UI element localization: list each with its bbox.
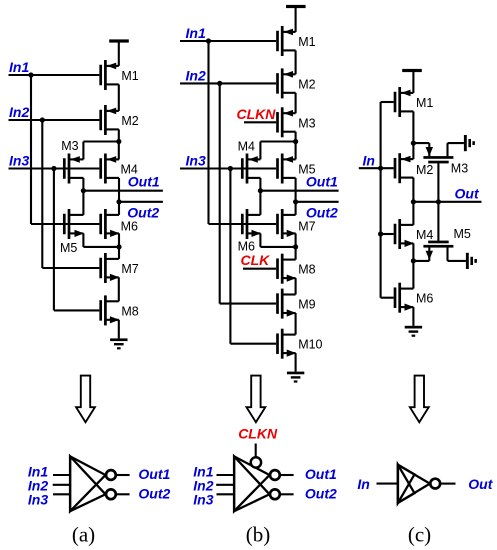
node Out junction circuit c bbox=[411, 199, 416, 204]
transistor M4 PMOS b bbox=[241, 154, 260, 184]
node In3 junction bbox=[51, 166, 56, 171]
svg-text:(c): (c) bbox=[408, 523, 431, 547]
wire M5 drain down to Out2 node circuit b bbox=[295, 178, 297, 202]
node M4 source / M5 / M6 drain bbox=[411, 258, 416, 263]
transistor M5 NMOS bbox=[63, 209, 84, 239]
node M3 M5 gate on Out line bbox=[436, 199, 441, 204]
clock bubble gate b bbox=[251, 457, 261, 467]
wire In3 rail to M10 gate bbox=[230, 343, 276, 345]
node In junction rail circuit c bbox=[378, 166, 383, 171]
wire M1 drain down to node circuit c bbox=[412, 111, 414, 143]
wire M2 drain to M3 source circuit b bbox=[295, 93, 297, 113]
gate symbol b triangle 2 bbox=[234, 456, 269, 511]
ground circuit b bbox=[287, 372, 304, 383]
svg-text:M1: M1 bbox=[416, 96, 433, 110]
svg-text:Out2: Out2 bbox=[305, 485, 337, 501]
supply symbol for M3 bbox=[464, 135, 475, 151]
svg-text:In1: In1 bbox=[186, 25, 206, 41]
transistor M6 NMOS b bbox=[241, 209, 261, 239]
svg-text:In: In bbox=[357, 476, 369, 492]
svg-text:M9: M9 bbox=[298, 298, 315, 312]
wire M4 source down to node circuit c bbox=[412, 243, 414, 261]
wire Out2 bbox=[119, 201, 163, 203]
wire M3 drain down to Out1 node bbox=[82, 178, 84, 191]
svg-text:M2: M2 bbox=[416, 163, 433, 177]
inversion bubble gate c bbox=[430, 479, 440, 489]
svg-text:In3: In3 bbox=[28, 492, 48, 508]
supply symbol for M5 bbox=[466, 253, 477, 269]
wire M3 source up to node bbox=[82, 142, 84, 160]
transistor M10 NMOS b bbox=[276, 329, 296, 359]
wire M1 drain to M2 source circuit b bbox=[295, 50, 297, 74]
svg-text:M8: M8 bbox=[121, 304, 138, 318]
pin In1 gate a bbox=[53, 474, 70, 476]
wire M10 source to ground circuit b bbox=[295, 353, 297, 372]
svg-text:M2: M2 bbox=[121, 114, 138, 128]
transistor M7 NMOS b bbox=[276, 209, 296, 239]
wire M6 source to common node circuit b bbox=[260, 246, 295, 248]
wire M6 drain up to Out1 circuit b bbox=[259, 191, 261, 215]
svg-text:M1: M1 bbox=[298, 35, 315, 49]
transistor M7 NMOS bbox=[99, 253, 119, 283]
wire In2 rail to M7 gate bbox=[42, 267, 99, 269]
pin Out2 gate b bbox=[280, 493, 294, 495]
svg-text:M10: M10 bbox=[298, 338, 322, 352]
wire M7 source to M8 drain bbox=[118, 277, 120, 301]
svg-text:CLK: CLK bbox=[241, 252, 271, 268]
transistor M2 PMOS c bbox=[394, 153, 414, 183]
node rail M4 gate junction bbox=[378, 231, 383, 236]
gate symbol a triangle 2 bbox=[70, 456, 105, 511]
wire node to M3 horizontal bbox=[413, 142, 429, 144]
wire In1 to M1 gate bbox=[9, 74, 100, 76]
pin Out2 gate a bbox=[116, 493, 130, 495]
transistor M8 NMOS bbox=[99, 295, 119, 325]
svg-text:Out1: Out1 bbox=[306, 174, 338, 190]
wire M2 drain down to internal node bbox=[118, 129, 120, 141]
wire M4 drain down to Out2 node bbox=[118, 178, 120, 202]
wire M4 source up to node bbox=[118, 142, 120, 160]
svg-text:In3: In3 bbox=[193, 492, 213, 508]
wire In1 to M1 gate circuit b bbox=[180, 40, 276, 42]
svg-text:Out2: Out2 bbox=[127, 204, 159, 220]
node M2 drain / M3 M4 sources bbox=[116, 139, 121, 144]
wire Out2 circuit b bbox=[296, 201, 339, 203]
wire common node down to M8 drain bbox=[295, 247, 297, 260]
gate symbol a triangle 1 bbox=[70, 456, 105, 511]
pin CLKN gate b bbox=[255, 444, 257, 458]
svg-text:In2: In2 bbox=[9, 104, 29, 120]
ground circuit c bbox=[405, 326, 422, 337]
wire M4 drain up to Out circuit c bbox=[412, 202, 414, 225]
wire internal node horizontal bbox=[83, 140, 118, 142]
wire M4 drain down to Out1 node circuit b bbox=[259, 178, 261, 191]
svg-text:M3: M3 bbox=[298, 116, 315, 130]
node Out1 junction bbox=[81, 188, 86, 193]
wire M6 drain up to Out2 node bbox=[118, 202, 120, 215]
pin In3 gate a bbox=[53, 493, 70, 495]
wire M2 source up to node circuit c bbox=[412, 143, 414, 159]
svg-text:In: In bbox=[363, 152, 375, 168]
power VDD symbol circuit b bbox=[286, 5, 306, 8]
svg-text:Out1: Out1 bbox=[128, 173, 160, 189]
gate symbol c inner triangle up bbox=[398, 465, 415, 503]
node Out2 junction bbox=[116, 199, 121, 204]
wire In2 to M2 gate circuit b bbox=[180, 82, 276, 84]
block arrow under circuit c bbox=[410, 376, 429, 423]
svg-text:M8: M8 bbox=[298, 263, 315, 277]
wire VDD stem to M1 source circuit c bbox=[412, 72, 414, 93]
transistor M5 PMOS b bbox=[276, 154, 295, 184]
pin Out gate c bbox=[441, 483, 456, 485]
node In1 junction bbox=[28, 72, 33, 77]
wire Out circuit c bbox=[413, 201, 481, 203]
gate symbol c outer triangle bbox=[398, 465, 430, 503]
node M3 drain / M4 M5 sources bbox=[293, 139, 298, 144]
wire In1 rail to M6 M7 gates circuit b bbox=[209, 223, 277, 225]
node M5 M6 sources / M7 drain bbox=[116, 244, 121, 249]
node In2 junction bbox=[40, 117, 45, 122]
transistor M3 PMOS bbox=[63, 154, 83, 184]
wire M7 source down to common node circuit b bbox=[295, 233, 297, 247]
wire VDD stem to M1 source bbox=[118, 42, 120, 66]
svg-text:Out: Out bbox=[468, 476, 493, 492]
svg-text:M5: M5 bbox=[60, 241, 77, 255]
gate symbol b triangle 1 bbox=[234, 456, 269, 511]
wire M6 source down circuit b bbox=[259, 233, 261, 247]
wire M5 source to common node bbox=[83, 246, 119, 248]
svg-text:M4: M4 bbox=[238, 140, 255, 154]
inversion bubble Out2 gate b bbox=[270, 489, 280, 499]
inversion bubble Out2 gate a bbox=[106, 489, 116, 499]
wire CLKN stub to M3 gate bbox=[244, 121, 276, 123]
pin In2 gate a bbox=[53, 484, 70, 486]
pin Out1 gate a bbox=[116, 474, 130, 476]
wire M8 source to ground bbox=[118, 320, 120, 339]
svg-text:M5: M5 bbox=[454, 227, 471, 241]
transistor M9 NMOS b bbox=[276, 289, 296, 319]
svg-text:M3: M3 bbox=[451, 161, 468, 175]
svg-text:In1: In1 bbox=[9, 59, 29, 75]
node In2 junction circuit b bbox=[217, 81, 222, 86]
wire CLK stub to M8 gate bbox=[243, 268, 276, 270]
node M1 drain / M2 source / M3 bbox=[411, 141, 416, 146]
svg-text:M3: M3 bbox=[61, 139, 78, 153]
wire M2 drain down to Out circuit c bbox=[412, 178, 414, 202]
wire In to M2 gate circuit c bbox=[359, 167, 394, 169]
pin In2 gate b bbox=[216, 484, 234, 486]
power VDD symbol circuit c bbox=[402, 69, 422, 72]
transistor M1 PMOS b bbox=[276, 26, 295, 56]
node Out2 junction circuit b bbox=[293, 199, 298, 204]
wire internal node horizontal circuit b bbox=[260, 140, 295, 142]
pin In gate c bbox=[377, 483, 398, 485]
wire rail to M4 gate circuit c bbox=[381, 233, 394, 235]
transistor M8 NMOS clocked bbox=[276, 254, 296, 284]
svg-text:Out: Out bbox=[455, 185, 480, 201]
svg-text:M1: M1 bbox=[121, 69, 138, 83]
power VDD symbol circuit a bbox=[109, 39, 129, 42]
pin Out1 gate b bbox=[280, 474, 294, 476]
svg-text:Out2: Out2 bbox=[138, 485, 170, 501]
wire rail to M6 gate circuit c bbox=[381, 297, 394, 299]
transistor M6 NMOS bbox=[99, 209, 119, 239]
wire In1 rail to M5 M6 gates bbox=[31, 223, 99, 225]
block arrow under circuit b bbox=[247, 376, 266, 423]
wire common node down to M7 drain bbox=[118, 247, 120, 259]
wire M5 source down bbox=[82, 233, 84, 247]
node In3 junction circuit b bbox=[228, 166, 233, 171]
transistor M1 PMOS bbox=[99, 60, 118, 90]
wire M5 drain up to Out1 node bbox=[82, 191, 84, 215]
wire M3 drain down to internal node circuit b bbox=[295, 132, 297, 142]
gate symbol c inner triangle down bbox=[398, 465, 415, 503]
pin In3 gate b bbox=[217, 493, 235, 495]
svg-text:M4: M4 bbox=[416, 228, 433, 242]
ground circuit a bbox=[110, 338, 127, 349]
svg-text:CLKN: CLKN bbox=[237, 106, 277, 122]
wire In2 rail down to M7 gate bbox=[41, 120, 43, 268]
wire In1 rail circuit b bbox=[207, 41, 209, 224]
transistor M2 PMOS bbox=[99, 105, 118, 135]
node M6 M7 sources / M8 drain bbox=[293, 244, 298, 249]
wire In3 rail to M8 gate bbox=[54, 309, 99, 311]
wire In3 to M4 M5 gates circuit b bbox=[180, 167, 276, 169]
wire M6 source to ground circuit c bbox=[412, 307, 414, 326]
wire In3 rail down to M8 gate bbox=[53, 169, 55, 311]
svg-text:In3: In3 bbox=[186, 153, 206, 169]
wire In2 rail circuit b bbox=[219, 83, 221, 303]
inversion bubble Out1 gate a bbox=[106, 470, 116, 480]
transistor M1 PMOS c bbox=[394, 87, 414, 117]
svg-text:M2: M2 bbox=[298, 77, 315, 91]
svg-text:Out2: Out2 bbox=[306, 204, 338, 220]
wire feedback rail circuit c bbox=[380, 102, 382, 298]
svg-text:M7: M7 bbox=[121, 262, 138, 276]
wire In2 to M2 gate bbox=[9, 119, 100, 121]
svg-text:M6: M6 bbox=[121, 220, 138, 234]
transistor M3 PMOS keeper rotated bbox=[423, 143, 464, 202]
svg-text:Out1: Out1 bbox=[138, 466, 170, 482]
wire M8 source to M9 drain bbox=[295, 278, 297, 294]
wire In1 rail down to M5/M6 gate line bbox=[30, 75, 32, 224]
node In1 junction circuit b bbox=[206, 38, 211, 43]
svg-text:(b): (b) bbox=[246, 523, 271, 547]
block arrow under circuit a bbox=[76, 376, 95, 423]
wire M1 drain to M2 source bbox=[118, 84, 120, 111]
wire node down to M6 drain circuit c bbox=[412, 261, 414, 289]
wire rail to M1 gate circuit c bbox=[381, 101, 394, 103]
svg-text:Out1: Out1 bbox=[305, 466, 337, 482]
transistor M2 PMOS b bbox=[276, 68, 295, 98]
wire M6 source down to common node bbox=[118, 233, 120, 247]
svg-text:(a): (a) bbox=[72, 523, 95, 547]
wire M4 source up to node circuit b bbox=[259, 142, 261, 160]
node Out1 junction circuit b bbox=[258, 188, 263, 193]
wire Out1 circuit b bbox=[260, 190, 338, 192]
svg-text:M7: M7 bbox=[298, 220, 315, 234]
wire In3 rail circuit b bbox=[229, 169, 231, 344]
pin In1 gate b bbox=[217, 474, 235, 476]
svg-text:In3: In3 bbox=[9, 153, 29, 169]
svg-text:M6: M6 bbox=[416, 292, 433, 306]
wire VDD stem to M1 source circuit b bbox=[295, 8, 297, 32]
transistor M4 PMOS bbox=[99, 154, 119, 184]
svg-text:In2: In2 bbox=[186, 67, 206, 83]
wire M5 source up to node circuit b bbox=[295, 142, 297, 160]
wire M9 source to M10 drain bbox=[295, 313, 297, 335]
transistor M4 NMOS c bbox=[394, 219, 414, 249]
svg-text:CLKN: CLKN bbox=[238, 426, 278, 442]
wire In2 rail to M9 gate bbox=[220, 303, 276, 305]
inversion bubble Out1 gate b bbox=[270, 470, 280, 480]
transistor M3 PMOS clocked bbox=[276, 107, 295, 137]
wire Out1 bbox=[83, 190, 162, 192]
transistor M5 NMOS keeper rotated bbox=[413, 202, 466, 261]
wire In3 to M3 M4 gates bbox=[9, 167, 100, 169]
transistor M6 NMOS c bbox=[394, 283, 414, 313]
wire M7 drain up to Out2 circuit b bbox=[295, 202, 297, 215]
